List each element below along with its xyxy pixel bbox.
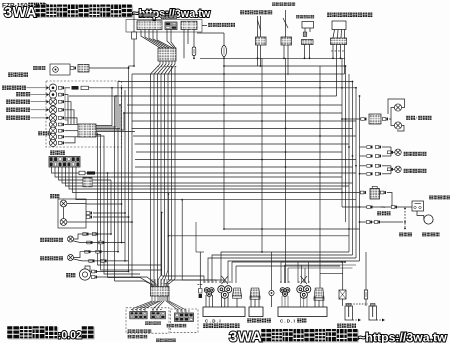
wire xyxy=(392,151,395,153)
wire: fuse line down xyxy=(223,66,225,229)
wire: right trunk 2 xyxy=(345,66,347,222)
wire: nest top link xyxy=(196,251,204,253)
wire: highbeam to conn xyxy=(64,118,77,124)
wire xyxy=(322,296,324,307)
wire xyxy=(281,296,283,307)
wire: sender line down xyxy=(261,58,263,252)
wire: plug gnd 2 xyxy=(377,319,383,321)
wire xyxy=(221,296,223,307)
wire: hl high xyxy=(67,203,86,205)
wire: fuel to conn xyxy=(64,95,68,124)
connector: highbeam ind xyxy=(58,117,64,120)
wire: harness run y136 xyxy=(133,135,356,137)
connector: flasher relay xyxy=(302,40,314,45)
connector: battery a xyxy=(366,221,372,224)
connector: fuse a xyxy=(367,206,373,209)
connector: meter light xyxy=(58,123,64,126)
wire: neutral to conn xyxy=(64,102,71,124)
label: left front turn signal xyxy=(40,256,63,260)
wire: centre trunk 1 xyxy=(150,80,152,286)
wire: meter fan 1 xyxy=(96,88,112,126)
svg-text:3WA: 3WA xyxy=(229,330,263,343)
wire: rt lamp2 bracket xyxy=(391,166,392,170)
connector: tail b xyxy=(382,118,388,121)
wire: left trunk 7 xyxy=(128,66,130,272)
connector: right turn 1b xyxy=(375,146,381,149)
wire junction xyxy=(128,67,130,69)
wire: nest from left 1 xyxy=(162,276,204,283)
wire: lh pin 3 xyxy=(157,279,159,287)
wire: pickup lead xyxy=(199,252,201,288)
lamp: tail/brake upper xyxy=(394,104,401,111)
wire: gen out 1 xyxy=(208,297,210,307)
connector: lr turn b xyxy=(92,233,98,236)
wire: main sw out 2 xyxy=(55,167,342,177)
connector: cdi 3-pin small xyxy=(280,288,290,297)
wire xyxy=(258,296,260,307)
fuse: main 20A xyxy=(221,46,226,57)
wire: to tail lamp 1 xyxy=(389,108,395,120)
wire: to tail lamp 2 xyxy=(391,119,395,126)
label: meter lights xyxy=(38,131,52,135)
connector: meter light xyxy=(58,142,64,145)
wire: gen drop 1 xyxy=(231,262,233,283)
resistor: spark suppressor xyxy=(364,290,367,299)
housing: headlight xyxy=(58,199,86,228)
connector: fuel sender xyxy=(256,37,267,45)
wire: rt feed xyxy=(360,173,367,175)
connector: meter light xyxy=(58,129,64,132)
wire: to fuse xyxy=(193,30,195,48)
connector: brake switch block xyxy=(137,21,162,30)
connector: right turn 2a xyxy=(367,155,373,158)
wire: top link xyxy=(197,32,224,34)
connector: regulator b xyxy=(380,191,386,194)
motor: starter xyxy=(424,215,433,224)
wire: harness run y113 xyxy=(125,112,342,114)
lamp: meter light y142.9 xyxy=(49,139,56,146)
wire stub xyxy=(91,271,92,273)
wire: plug dashed link xyxy=(345,303,368,305)
wire: rt link xyxy=(382,146,391,148)
enclosure: left handlebar (dashed) xyxy=(126,308,169,333)
wire: generator feed 4 xyxy=(228,261,360,283)
wire: hl feed 3 xyxy=(93,216,129,218)
arrow: neutral ind xyxy=(47,100,50,103)
lamp: left rear turn xyxy=(68,236,74,242)
wire: sender down 2 xyxy=(260,45,262,66)
wire: harness run y128.5 xyxy=(132,128,353,130)
wire: cdi crossover b xyxy=(301,276,308,284)
wire: harness run y66 xyxy=(224,65,346,67)
wire: brake sw contact xyxy=(283,18,288,28)
wire: coil link xyxy=(320,273,343,275)
wire: cdi drop 2 xyxy=(284,265,286,283)
wire: sw harness 5 xyxy=(157,30,172,48)
wire: centre trunk 3 xyxy=(157,80,159,286)
wire: rt feed xyxy=(360,155,367,157)
wire: harness run y152 xyxy=(136,151,342,153)
arrow: highbeam ind xyxy=(47,116,50,119)
connector: left handlebar block xyxy=(151,287,170,297)
label: left handlebar switch xyxy=(128,335,148,339)
wire: horn feed xyxy=(97,271,129,273)
wire: centre trunk 2 xyxy=(153,80,155,286)
lamp housing: position light xyxy=(50,64,70,75)
wire xyxy=(306,296,308,307)
lamp: position xyxy=(53,67,59,73)
wire: sender contact xyxy=(258,20,261,30)
relay: flasher xyxy=(302,22,314,29)
connector: horn a xyxy=(91,270,97,273)
frame: handlebar switch assembly xyxy=(126,20,202,33)
wire xyxy=(287,296,289,307)
wire: relay pin 1 xyxy=(304,28,306,32)
wire: tail loop xyxy=(388,99,405,114)
wire: lr turn gnd xyxy=(74,241,126,243)
wire: battery dashed xyxy=(404,208,406,229)
wire xyxy=(392,168,395,170)
wire: battery row xyxy=(360,221,404,223)
watermark: seconds char xyxy=(82,326,95,339)
wire xyxy=(212,295,214,307)
connector: rt lamp2 xyxy=(387,168,393,171)
box: CDI unit xyxy=(278,307,327,317)
wire: sw harness 3 xyxy=(149,30,166,48)
wire: lh fan 1 xyxy=(133,296,152,312)
relay: start cut-off xyxy=(332,21,346,30)
wire: coil feed 2 xyxy=(319,66,321,288)
wire: fuse row xyxy=(342,206,412,208)
label: engine kill switch xyxy=(208,23,235,27)
wire stub xyxy=(64,87,67,89)
connector: right turn 4a xyxy=(367,172,373,175)
wire: harness run y105 xyxy=(127,104,342,106)
socket: tail lamp xyxy=(369,114,381,124)
wire: harness run y167 xyxy=(135,166,353,168)
wire xyxy=(303,296,305,307)
connector: headlight 1 xyxy=(86,212,92,215)
wire: main sw out 3 xyxy=(59,167,112,180)
fuse: ignition xyxy=(192,47,196,56)
connector: right turn 3b xyxy=(375,164,381,167)
wire: lh fan 5 xyxy=(153,296,162,312)
wire: brake sw lead xyxy=(285,10,287,37)
wire: tail gnd xyxy=(397,126,404,132)
connector: meter block xyxy=(78,124,96,137)
wire: sender down 1 xyxy=(257,45,259,66)
label: neutral ind xyxy=(6,99,30,104)
lamp: meter light y130.7 xyxy=(49,127,56,134)
switch: main key switch xyxy=(49,157,80,168)
wire: from clutch switch xyxy=(133,39,135,66)
wire: pointer tachometer xyxy=(27,87,47,89)
wire: coil feed 3 xyxy=(365,252,367,290)
wire: main sw out 4 xyxy=(62,167,353,183)
wire: main sw out 1 xyxy=(52,167,357,173)
wire: rt lamp1 bracket xyxy=(391,147,392,152)
connector: fuel gauge xyxy=(58,93,64,96)
wire junctions xyxy=(404,208,406,230)
wire: meterlight 3 xyxy=(64,136,78,138)
connector: small block xyxy=(165,22,177,30)
spark plug: cyl 1 xyxy=(345,304,353,321)
meter: fuel gauge xyxy=(49,91,57,99)
wire: right trunk 3 xyxy=(348,74,350,252)
connector: right turn 3a xyxy=(367,164,373,167)
box: rectifier regulator xyxy=(249,307,263,317)
label: tail light xyxy=(406,116,415,120)
connector: lf turn a xyxy=(85,250,91,253)
connector: main harness block xyxy=(158,48,176,61)
wire: turn to conn xyxy=(64,110,74,124)
lamp: headlight low xyxy=(60,219,67,226)
wire: fuse down xyxy=(193,56,195,59)
lamp: turn ind xyxy=(49,106,57,114)
wire: meter fan 6 xyxy=(96,133,161,265)
label: starting circuit cut-off relay xyxy=(327,12,373,17)
wire: pointer highbeam ind xyxy=(31,117,47,119)
wire: meter fan 8 xyxy=(96,136,140,274)
wire junctions xyxy=(161,193,263,253)
connector: cdi 3-pin large xyxy=(297,286,311,299)
resistor: tacho feed xyxy=(72,86,79,90)
wire: into lh conn c xyxy=(164,270,168,287)
wire: lf turn gnd xyxy=(74,259,129,261)
regulator: voltage xyxy=(370,187,380,200)
wire: hl low xyxy=(67,221,86,223)
wire: nest from left 3 xyxy=(182,280,224,283)
label: starter switch xyxy=(161,15,177,19)
watermark: load time xyxy=(7,326,83,342)
wire: plug gnd 1 xyxy=(353,319,359,321)
label: starter relay xyxy=(429,195,450,199)
wire: centre trunk 8 xyxy=(174,66,176,279)
connector: headlight 2 xyxy=(86,216,92,219)
wire xyxy=(284,296,286,307)
switch: turn signal xyxy=(175,313,194,321)
lamp: neutral ind xyxy=(49,98,57,106)
lamp: highbeam ind xyxy=(49,114,57,122)
wire: cdi drop 3 xyxy=(287,268,289,283)
connector: position light xyxy=(70,67,76,70)
svg-text:3WA: 3WA xyxy=(4,5,37,21)
wire xyxy=(236,298,238,307)
lamp: meter light y124.5 xyxy=(49,121,56,128)
connector: rt lamp1 xyxy=(387,151,393,154)
wire: harness run y235.8 xyxy=(168,235,349,237)
wire: lh fan 3 xyxy=(141,296,158,312)
wire: trunk to lh switch 3 xyxy=(132,277,156,287)
wire: sender lead 1 xyxy=(257,16,259,37)
wire: sw harness 7 xyxy=(171,30,176,48)
connector: right turn 2b xyxy=(375,155,381,158)
wire xyxy=(314,296,316,307)
coil: lighting xyxy=(233,288,242,298)
wire: lh fan 7 xyxy=(166,296,178,313)
svg-text:~https://3wa.tw: ~https://3wa.tw xyxy=(358,331,447,343)
wire: cdi h1 xyxy=(281,261,342,263)
wire: start sw down 2 xyxy=(187,30,189,45)
wire: sw harness 2 xyxy=(145,30,163,48)
wire: trunk to lh switch 2 xyxy=(115,281,154,287)
wire: harness run y81.5 xyxy=(118,81,353,83)
wire: gen h 2 xyxy=(236,265,340,267)
connector: tail a xyxy=(361,118,367,121)
wire: cdi drop 6 xyxy=(304,268,306,283)
connector: regulator a xyxy=(360,191,366,194)
wire: flasher down 1 xyxy=(304,45,306,59)
wire: cdi drop 4 xyxy=(297,262,299,283)
wire junctions xyxy=(223,57,341,67)
connector: lf turn b xyxy=(96,250,102,253)
connector: lf turn c xyxy=(89,260,95,263)
wire: gen drop 2 xyxy=(235,266,237,283)
lamp: meter light y136.8 xyxy=(49,133,56,140)
wire: harness fan 1 xyxy=(151,61,161,80)
wire: lh pin 2 xyxy=(154,279,156,287)
wire: harness fan 5 xyxy=(165,61,173,80)
label: main switch xyxy=(50,150,65,155)
wire: rt link xyxy=(382,165,391,167)
wire: gen crossover b xyxy=(222,276,229,284)
wire: meter fan 7 xyxy=(96,135,162,271)
relay: starter solenoid xyxy=(412,201,424,211)
wire: left trunk 6 xyxy=(124,90,126,261)
wire junctions xyxy=(111,87,125,114)
wire: relay pin 2 xyxy=(309,28,311,32)
wire: left trunk 1 xyxy=(107,173,109,278)
wire: lf turn feed xyxy=(74,252,119,258)
svg-text:C.D.I: C.D.I xyxy=(205,319,222,324)
wire junctions xyxy=(341,261,346,263)
diode: tacho feed xyxy=(81,86,89,89)
capacitor: relay xyxy=(303,32,307,37)
wire: lh pin 4 xyxy=(160,279,162,287)
wire: pointer neutral ind xyxy=(31,101,47,103)
wire xyxy=(300,296,302,307)
wire: cdi h2 xyxy=(285,264,357,266)
wire xyxy=(390,152,392,156)
label: right rear turn signal xyxy=(404,152,427,156)
wire: lr turn feed xyxy=(74,234,112,239)
connector: lr turn c xyxy=(87,241,93,244)
wire: rt feed xyxy=(360,146,367,148)
wire: brake sw down 2 xyxy=(287,45,289,75)
horn xyxy=(79,269,90,280)
wire: sender lead 2 xyxy=(260,16,262,37)
connector: right turn 4b xyxy=(375,172,381,175)
wire: left trunk 8 xyxy=(131,74,133,277)
label: horn xyxy=(66,273,76,278)
wire: harness fan 6 xyxy=(168,61,175,80)
wire: to main fuse xyxy=(223,33,225,46)
wire junctions xyxy=(341,65,360,230)
arrow: tachometer xyxy=(47,86,50,89)
label: starter motor xyxy=(422,232,440,236)
wire: harness run y66 xyxy=(129,65,135,67)
wire xyxy=(250,296,252,307)
wire: meter fan 4 xyxy=(96,113,124,130)
wire: into lh conn d xyxy=(166,279,172,287)
wire: rt link xyxy=(382,155,391,157)
connector: meter light xyxy=(58,135,64,138)
arrow: fuel gauge xyxy=(47,93,50,96)
connector: horn b xyxy=(91,276,97,279)
wire: centre trunk 9 xyxy=(161,213,163,277)
meter: tachometer xyxy=(49,84,57,92)
wire: trunk to lh switch 1 xyxy=(108,278,152,287)
ground arrow 1 xyxy=(358,319,361,322)
connector: tachometer xyxy=(58,86,64,89)
wire: hl feed 4 xyxy=(86,221,132,223)
wire xyxy=(318,300,320,307)
wire: coil feed 1 xyxy=(342,262,344,290)
label: rectifier regulator xyxy=(247,318,271,323)
wire: gen crossover a xyxy=(222,276,229,284)
terminal: ground xyxy=(269,290,274,295)
wire xyxy=(390,169,392,174)
enclosure: meter assembly (dashed) xyxy=(46,81,122,147)
label: position light xyxy=(33,66,46,70)
wire: centre trunk 5 xyxy=(164,80,166,275)
wire: lh pin 6 xyxy=(166,279,168,287)
wire: flasher down 2 xyxy=(309,45,311,59)
coil: ignition source xyxy=(314,288,324,300)
wire: upper bus xyxy=(200,57,345,59)
wire xyxy=(227,296,229,307)
wire: lh fan 9 xyxy=(169,296,186,313)
wire: rt link xyxy=(382,173,391,175)
label: battery xyxy=(399,232,412,236)
wire: ground drop xyxy=(271,252,273,290)
wire: sw harness 1 xyxy=(141,30,160,48)
label: brake switch xyxy=(139,13,155,17)
wire: sw harness 6 xyxy=(167,30,174,48)
connector: turn ind xyxy=(58,108,64,111)
wire: main sw out 7 xyxy=(73,167,364,193)
lamp: left front turn xyxy=(68,255,74,261)
label: fuel gauge xyxy=(16,92,30,97)
label: right front turn signal xyxy=(404,169,427,173)
connector: ignition sub block xyxy=(83,178,92,187)
wire xyxy=(365,299,367,306)
wire: position feed xyxy=(89,67,129,69)
coil: rectifier input xyxy=(250,288,260,299)
wire: relay lead 4 xyxy=(344,30,346,39)
wire: kill switch drop xyxy=(133,13,135,32)
wire: meter fan 5 xyxy=(96,131,135,133)
connector: pickup 3-pin xyxy=(204,288,214,297)
wire: long run y88 xyxy=(89,87,357,89)
wire: left trunk 5 xyxy=(121,88,123,243)
wire: centre trunk 4 xyxy=(160,80,162,275)
pin labels cdi xyxy=(280,281,310,284)
fuse: main xyxy=(87,171,95,174)
label: dimmer switch xyxy=(128,329,152,333)
connector: right turn 1a xyxy=(367,146,373,149)
wire: brake sw down 1 xyxy=(283,45,285,58)
pin labels switch boxes xyxy=(131,309,190,311)
label: meter assembly xyxy=(8,72,28,77)
wire: rt feed xyxy=(360,165,367,167)
wire: meterlight 1 xyxy=(64,124,78,126)
label: fuel level sender xyxy=(240,10,272,14)
wire: harness run y121 xyxy=(132,120,356,122)
wire: cdi drop 7 xyxy=(308,262,310,283)
wire: horn top xyxy=(85,266,90,272)
wire: meterlight 2 xyxy=(64,130,78,132)
